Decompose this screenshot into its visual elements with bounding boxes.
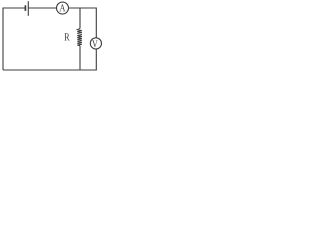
- wire top-left segment: [3, 8, 25, 70]
- wire resistor branch top: [79, 8, 81, 29]
- ammeter A circle: [57, 2, 69, 14]
- battery cell short plate (negative): [24, 5, 26, 11]
- resistor R zigzag: [77, 29, 82, 46]
- wire battery to ammeter: [28, 7, 56, 9]
- resistor label R: [64, 33, 69, 40]
- ammeter label A: [60, 4, 66, 11]
- wire voltmeter to bottom-right corner: [3, 49, 96, 70]
- battery cell long plate (positive): [27, 1, 29, 16]
- voltmeter V circle: [90, 38, 101, 49]
- wire ammeter to top-right corner: [69, 8, 97, 38]
- wire resistor branch bottom: [79, 46, 81, 70]
- voltmeter label V: [92, 40, 98, 47]
